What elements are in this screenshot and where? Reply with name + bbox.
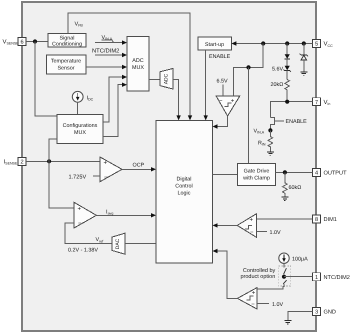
svg-text:DAC: DAC (115, 238, 121, 249)
wire pin6 node down to configurations mux (35, 42, 57, 117)
wire start-up enable down to DCL (205, 50, 207, 117)
pin 6 VSENSE (3, 38, 27, 46)
switch controlled by product option (283, 263, 286, 284)
wire Iavg output to DCL (96, 214, 152, 216)
current source IDC (72, 91, 93, 102)
DIM1 comparator (237, 214, 256, 238)
svg-text:100µA: 100µA (292, 256, 308, 262)
node at pin6 wire (33, 39, 37, 43)
ADC MUX block (127, 37, 149, 91)
pin 3 GND (313, 308, 336, 316)
wire 6.5V ref stub (222, 85, 224, 96)
wire config mux out2 to ADC MUX (103, 85, 124, 137)
node output wire (283, 170, 287, 174)
svg-text:1.0V: 1.0V (272, 302, 283, 308)
wire VCC branch down to comparator plus (234, 44, 264, 96)
node VCC rail 2 (285, 41, 289, 45)
wire DAC to DCL (125, 243, 156, 245)
resistor RIN (258, 130, 273, 151)
OCP comparator (100, 157, 122, 182)
wire node to pin1 (284, 276, 313, 278)
wire ADC to digital control logic top (173, 80, 178, 117)
svg-text:−: − (250, 230, 254, 236)
start-up block (198, 37, 231, 50)
wire ADC MUX to ADC (149, 79, 160, 81)
signal conditioning block (48, 34, 86, 48)
node NTC switch (282, 275, 286, 279)
pin 2 ISENSE (4, 157, 27, 165)
svg-text:−: − (251, 302, 255, 308)
1.0V reference wire DIM1 (257, 231, 267, 233)
wire VFB: signal conditioning top to digital control logic top (68, 13, 190, 117)
NTC comparator (237, 288, 257, 309)
svg-text:Logic: Logic (178, 191, 191, 197)
wire DCL to gate drive (213, 173, 238, 175)
svg-text:+: + (78, 207, 82, 213)
svg-text:+: + (250, 218, 254, 224)
svg-text:−: − (104, 175, 108, 181)
current source 100uA (279, 253, 308, 263)
svg-text:ENABLE: ENABLE (286, 119, 308, 125)
1.725V reference wire (93, 175, 100, 177)
pin 5 VCC (313, 40, 334, 48)
mosfet enable switch (270, 117, 307, 130)
svg-text:5: 5 (315, 42, 318, 48)
svg-text:ADC: ADC (164, 73, 170, 84)
wire config mux out1 to ADC MUX (103, 77, 124, 122)
dashed product option box (279, 266, 291, 286)
node VCC rail 1 (261, 41, 265, 45)
svg-text:OUTPUT: OUTPUT (324, 171, 348, 177)
node gate drive supply branch (246, 65, 250, 69)
ADC converter trapezoid (160, 68, 173, 89)
svg-text:product option: product option (240, 274, 275, 280)
pin 7 Vin (313, 98, 331, 106)
wire IDC to configurations mux (77, 102, 79, 114)
svg-text:6: 6 (20, 40, 23, 46)
svg-text:DIM1: DIM1 (324, 217, 337, 223)
svg-text:ENABLE: ENABLE (209, 54, 231, 60)
svg-text:4: 4 (315, 171, 318, 177)
wire OCP output to DCL (122, 168, 153, 170)
diode from VCC (285, 44, 290, 66)
ground for VCC clamp (300, 72, 307, 75)
svg-text:+: + (231, 98, 235, 104)
configurations MUX block (57, 115, 103, 144)
comparator 6.5V UVLO (216, 96, 240, 116)
svg-text:8: 8 (315, 217, 318, 223)
svg-text:3: 3 (315, 310, 318, 316)
wire pin6 to signal conditioning (26, 41, 48, 43)
DAC trapezoid (112, 233, 125, 254)
svg-text:20kΩ: 20kΩ (271, 82, 284, 88)
node on pin2 wire (47, 159, 51, 163)
internal zener diode VCC clamp (300, 44, 308, 72)
svg-text:with Clamp: with Clamp (242, 176, 270, 182)
svg-text:5.6V: 5.6V (272, 67, 283, 73)
svg-text:Conditioning: Conditioning (52, 42, 82, 48)
pin 1 NTC/DIM2 (313, 273, 350, 281)
wire node up to configurations mux (49, 139, 57, 161)
ground for 60k (281, 197, 288, 200)
svg-text:2: 2 (20, 160, 23, 166)
wire comparator output to DCL (216, 116, 228, 127)
svg-text:Digital: Digital (177, 177, 192, 183)
svg-text:Configurations: Configurations (63, 123, 98, 129)
svg-text:NTC/DIM2: NTC/DIM2 (324, 274, 350, 281)
pin 4 OUTPUT (313, 168, 348, 176)
svg-text:1.725V: 1.725V (69, 174, 87, 180)
wire temperature sensor to ADC MUX (86, 66, 124, 68)
svg-text:60kΩ: 60kΩ (289, 185, 302, 191)
resistor 60k (283, 172, 302, 196)
svg-text:Sensor: Sensor (57, 66, 74, 72)
net stub NTC/DIM2 into ADC MUX (95, 54, 124, 56)
wire switch to NTC comparator plus (257, 284, 284, 289)
gate drive with clamp block (238, 164, 276, 186)
svg-text:Temperature: Temperature (51, 59, 81, 65)
node VinA (268, 128, 272, 132)
arrowhead VFB into DCL (188, 115, 192, 120)
ground symbol pin3 (284, 321, 291, 324)
svg-text:Control: Control (175, 184, 192, 190)
svg-text:6.5V: 6.5V (217, 78, 228, 84)
svg-text:−: − (78, 221, 82, 227)
temperature sensor block (47, 55, 87, 74)
svg-text:ADC: ADC (132, 58, 143, 64)
wire pin7 to mosfet (270, 102, 312, 118)
digital control logic block (156, 120, 213, 263)
svg-text:−: − (219, 98, 223, 104)
wire pin2 to OCP comparator (26, 160, 100, 162)
ground for RIN (267, 152, 274, 155)
svg-text:0.2V - 1.38V: 0.2V - 1.38V (68, 247, 98, 253)
wire Iavg minus input to DAC output (65, 223, 112, 244)
svg-text:MUX: MUX (74, 130, 86, 136)
svg-text:NTC/DIM2: NTC/DIM2 (92, 47, 119, 54)
svg-text:1: 1 (315, 275, 318, 281)
wire pin3 to ground (288, 312, 313, 321)
wire branch down to gate drive (248, 67, 250, 163)
svg-text:Start-up: Start-up (205, 42, 224, 48)
resistor 20k (271, 80, 290, 102)
net stub VinA into ADC MUX (95, 42, 124, 44)
svg-text:1.0V: 1.0V (270, 230, 281, 236)
svg-text:Gate Drive: Gate Drive (244, 169, 270, 175)
svg-text:MUX: MUX (132, 65, 144, 71)
svg-text:7: 7 (315, 100, 318, 106)
Iavg comparator (74, 202, 96, 228)
VCC rail wire to start-up (235, 43, 313, 45)
node resistor to pin7 wire (285, 100, 289, 104)
node VCC rail 3 (302, 41, 306, 45)
wire pin8 to DIM1 comparator (257, 218, 313, 220)
1.0V reference wire NTC (257, 303, 269, 305)
wire node down to Iavg comparator (49, 161, 74, 208)
svg-text:GND: GND (324, 310, 336, 316)
pin 8 DIM1 (313, 215, 337, 223)
svg-text:OCP: OCP (133, 162, 145, 168)
wire gate drive to pin4 (275, 171, 312, 173)
zener diode 5.6V (272, 66, 291, 80)
wire DIM1 comparator output to DCL (216, 224, 237, 226)
svg-text:+: + (104, 161, 108, 167)
wire NTC comparator output to DCL (216, 251, 237, 298)
